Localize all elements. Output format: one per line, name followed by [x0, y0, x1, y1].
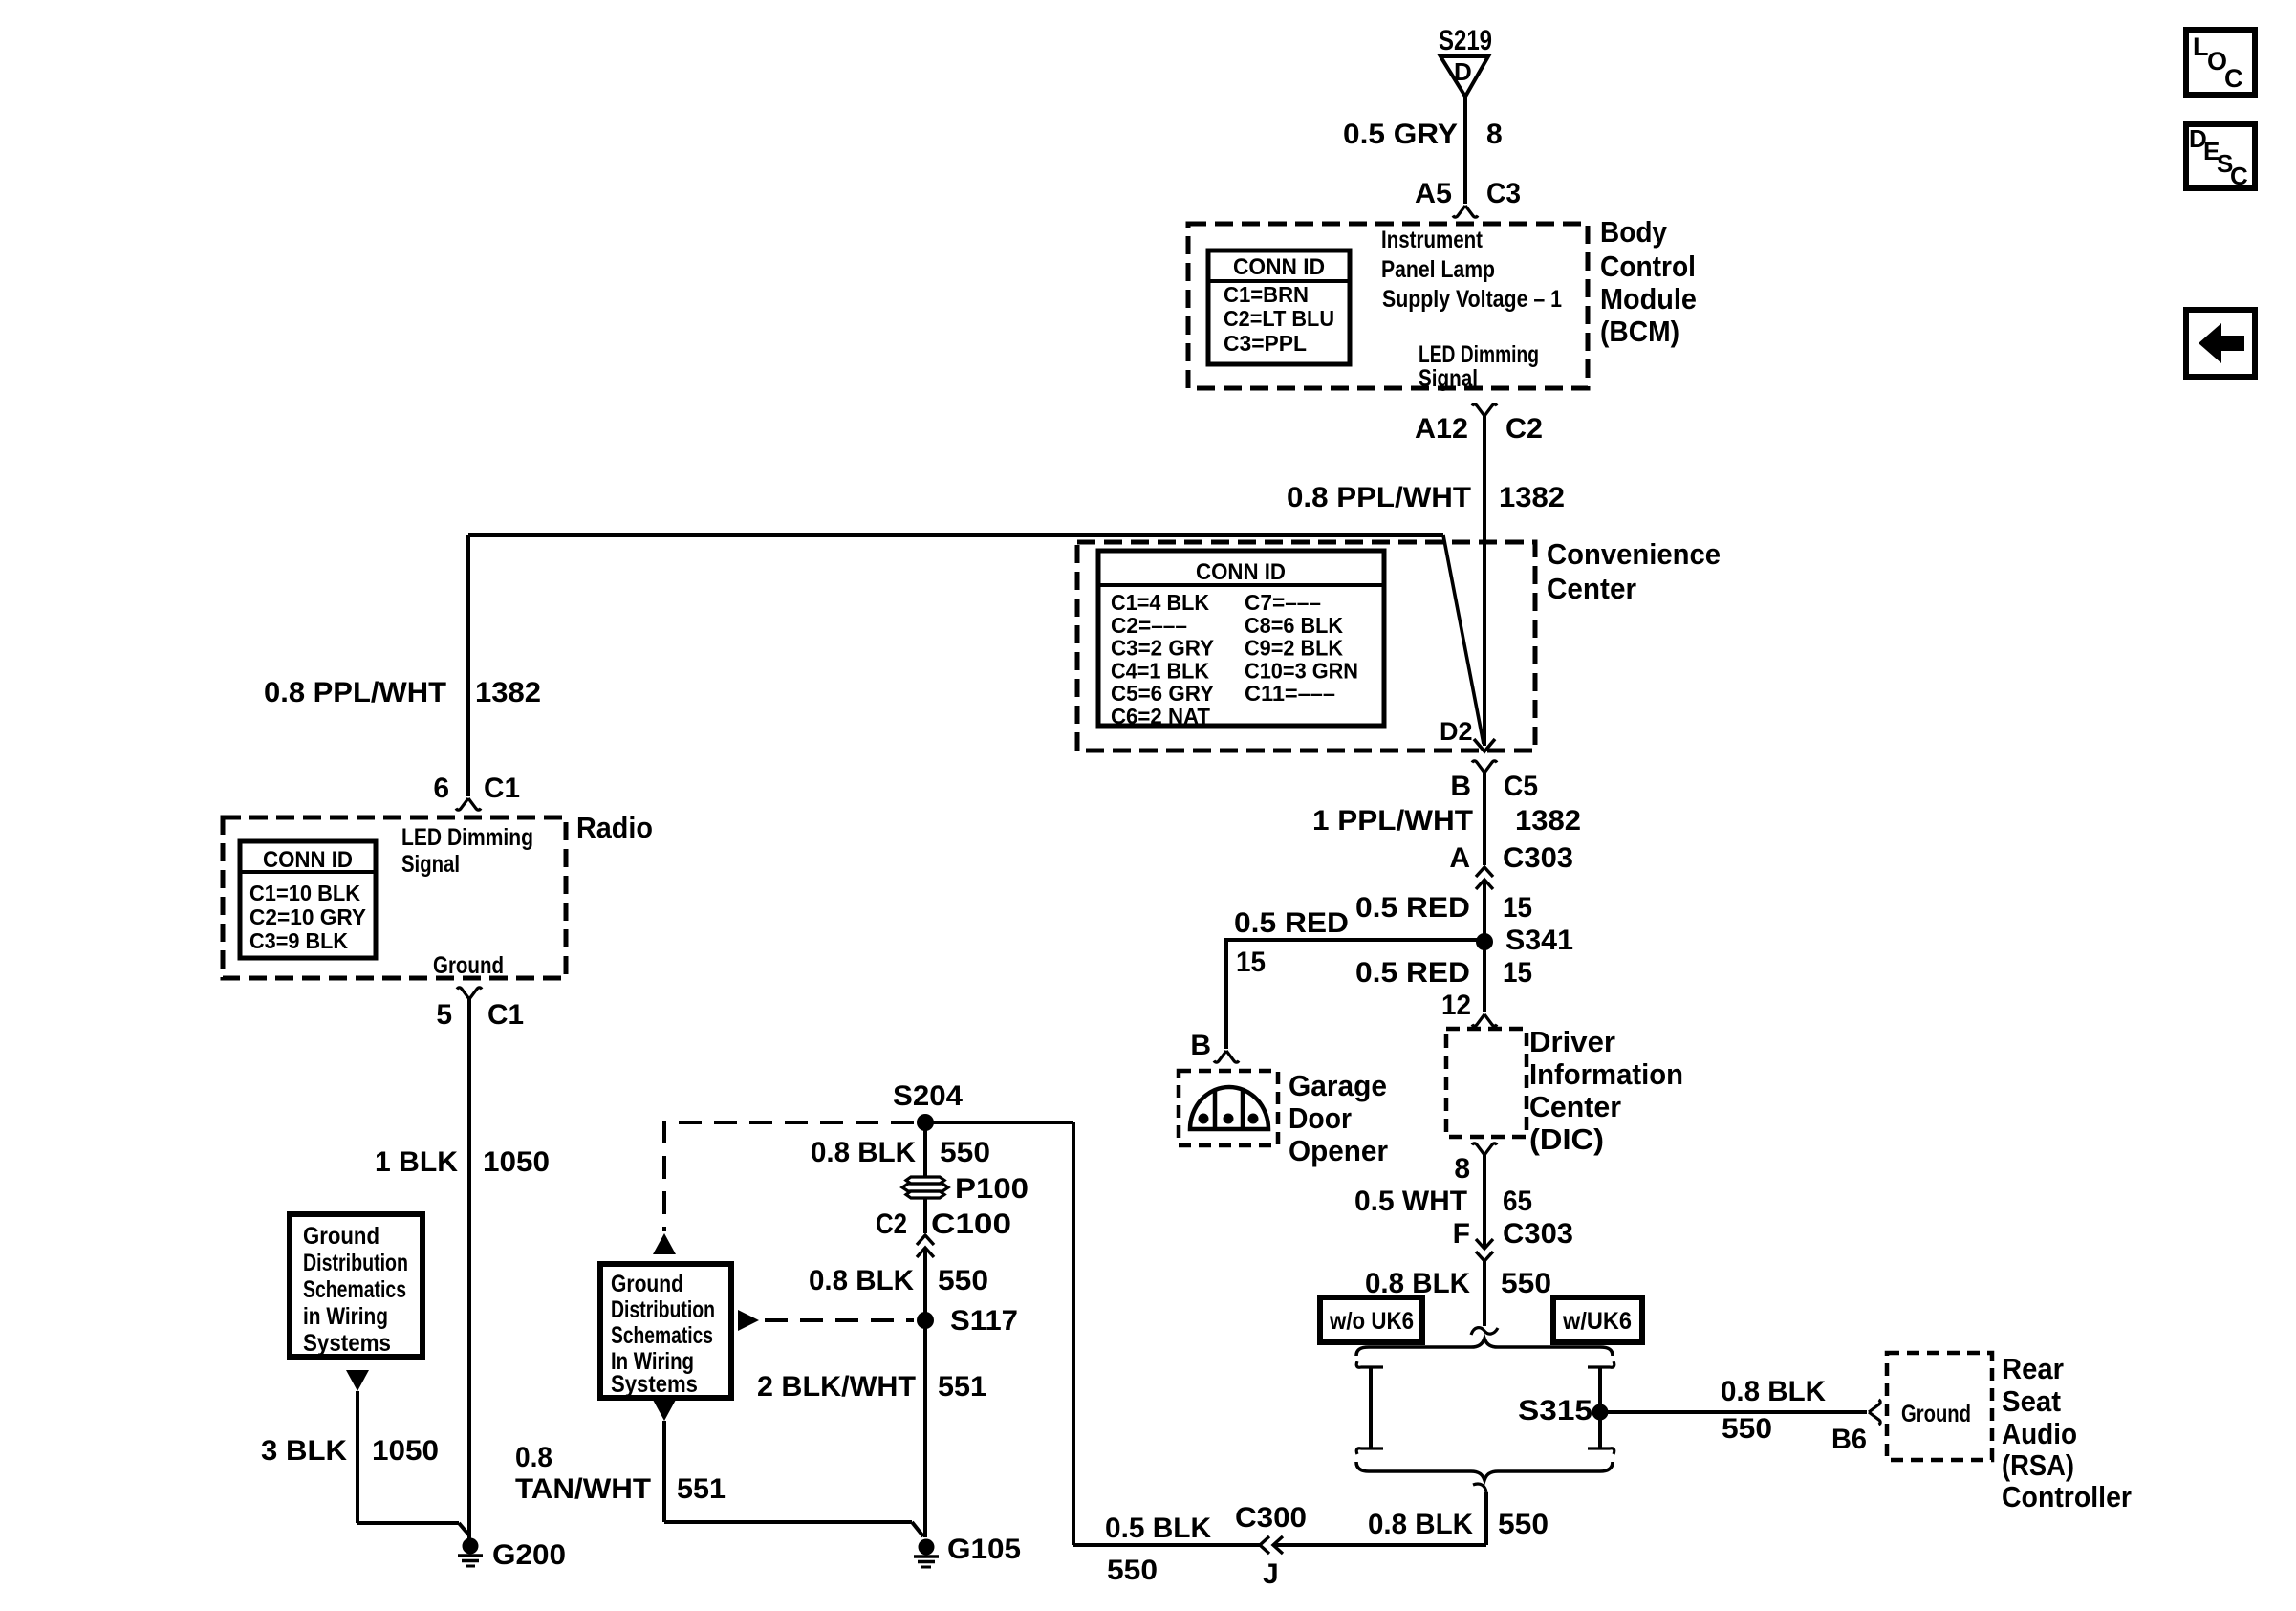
- svg-text:(RSA): (RSA): [2002, 1448, 2074, 1482]
- svg-text:S341: S341: [1505, 925, 1573, 956]
- svg-text:0.8: 0.8: [515, 1442, 552, 1473]
- svg-text:C2=–––: C2=–––: [1111, 613, 1187, 638]
- svg-text:0.8 PPL/WHT: 0.8 PPL/WHT: [264, 677, 446, 708]
- svg-text:65: 65: [1503, 1186, 1532, 1217]
- svg-text:0.5 GRY: 0.5 GRY: [1343, 119, 1458, 150]
- svg-text:Opener: Opener: [1289, 1134, 1388, 1167]
- svg-text:1382: 1382: [1499, 482, 1565, 513]
- svg-text:15: 15: [1503, 957, 1532, 989]
- svg-text:C5: C5: [1504, 771, 1538, 802]
- svg-text:Distribution: Distribution: [303, 1250, 408, 1276]
- svg-text:C4=1 BLK: C4=1 BLK: [1111, 658, 1209, 683]
- svg-text:1 BLK: 1 BLK: [375, 1146, 458, 1178]
- svg-text:2 BLK/WHT: 2 BLK/WHT: [757, 1371, 916, 1403]
- svg-text:Rear: Rear: [2002, 1352, 2064, 1385]
- svg-text:TAN/WHT: TAN/WHT: [515, 1473, 651, 1505]
- svg-text:1382: 1382: [1515, 805, 1581, 837]
- svg-text:0.8 PPL/WHT: 0.8 PPL/WHT: [1287, 482, 1471, 513]
- svg-text:P100: P100: [955, 1173, 1029, 1205]
- svg-text:Instrument: Instrument: [1381, 227, 1484, 253]
- svg-text:15: 15: [1503, 892, 1532, 924]
- svg-text:G105: G105: [947, 1534, 1021, 1565]
- svg-text:5: 5: [436, 999, 452, 1031]
- svg-text:Signal: Signal: [401, 851, 460, 878]
- svg-text:CONN ID: CONN ID: [1233, 254, 1325, 280]
- svg-text:S204: S204: [893, 1080, 963, 1112]
- svg-text:8: 8: [1454, 1153, 1470, 1185]
- svg-text:S315: S315: [1518, 1395, 1592, 1426]
- svg-text:S219: S219: [1439, 25, 1492, 56]
- svg-text:Distribution: Distribution: [611, 1296, 715, 1323]
- svg-text:12: 12: [1441, 990, 1471, 1021]
- svg-text:C7=–––: C7=–––: [1245, 590, 1321, 615]
- svg-text:0.5 RED: 0.5 RED: [1355, 892, 1470, 924]
- svg-text:C300: C300: [1235, 1502, 1307, 1534]
- svg-text:Body: Body: [1600, 215, 1668, 249]
- svg-text:C1=4 BLK: C1=4 BLK: [1111, 590, 1209, 615]
- svg-text:Control: Control: [1600, 250, 1696, 283]
- svg-text:A12: A12: [1415, 413, 1468, 445]
- svg-text:1 PPL/WHT: 1 PPL/WHT: [1312, 805, 1473, 837]
- svg-text:w/UK6: w/UK6: [1562, 1308, 1632, 1335]
- svg-text:C1=BRN: C1=BRN: [1224, 282, 1309, 307]
- svg-text:in Wiring: in Wiring: [303, 1303, 388, 1330]
- svg-text:Module: Module: [1600, 282, 1697, 316]
- svg-text:Ground: Ground: [303, 1223, 379, 1250]
- svg-text:1382: 1382: [475, 677, 541, 708]
- svg-text:D2: D2: [1440, 717, 1473, 746]
- svg-text:CONN ID: CONN ID: [1196, 559, 1286, 585]
- svg-text:C11=–––: C11=–––: [1245, 681, 1335, 706]
- svg-text:Center: Center: [1547, 572, 1636, 605]
- svg-text:Supply Voltage – 1: Supply Voltage – 1: [1382, 286, 1562, 313]
- svg-text:C3=PPL: C3=PPL: [1224, 331, 1307, 356]
- svg-text:C1: C1: [487, 999, 524, 1031]
- svg-text:Ground: Ground: [1901, 1401, 1971, 1427]
- svg-text:Signal: Signal: [1419, 365, 1478, 392]
- svg-text:1050: 1050: [372, 1435, 439, 1467]
- svg-text:Information: Information: [1529, 1057, 1683, 1091]
- svg-text:0.8 BLK: 0.8 BLK: [811, 1137, 916, 1168]
- svg-text:0.5 BLK: 0.5 BLK: [1105, 1513, 1211, 1544]
- svg-text:550: 550: [1722, 1413, 1772, 1445]
- svg-text:Controller: Controller: [2002, 1480, 2132, 1513]
- svg-text:B: B: [1190, 1030, 1211, 1061]
- svg-text:C: C: [2224, 64, 2243, 93]
- svg-text:C2: C2: [1505, 413, 1543, 445]
- svg-text:550: 550: [1501, 1268, 1551, 1299]
- svg-text:C: C: [2230, 162, 2248, 190]
- svg-text:C2=10 GRY: C2=10 GRY: [249, 904, 366, 929]
- svg-text:C100: C100: [931, 1208, 1011, 1240]
- svg-text:C303: C303: [1503, 1218, 1573, 1250]
- svg-text:Driver: Driver: [1529, 1025, 1615, 1058]
- svg-text:S117: S117: [950, 1305, 1018, 1337]
- svg-text:C5=6 GRY: C5=6 GRY: [1111, 681, 1214, 706]
- svg-text:0.5 WHT: 0.5 WHT: [1354, 1186, 1467, 1217]
- svg-text:Schematics: Schematics: [611, 1322, 713, 1349]
- svg-text:C3=2 GRY: C3=2 GRY: [1111, 636, 1214, 661]
- svg-text:0.8 BLK: 0.8 BLK: [1721, 1376, 1826, 1407]
- svg-text:Ground: Ground: [611, 1271, 683, 1297]
- svg-text:0.5 RED: 0.5 RED: [1355, 957, 1470, 989]
- svg-text:C10=3 GRN: C10=3 GRN: [1245, 658, 1358, 683]
- svg-text:550: 550: [1107, 1555, 1158, 1586]
- svg-text:B6: B6: [1831, 1424, 1867, 1455]
- svg-text:Systems: Systems: [611, 1371, 698, 1398]
- svg-text:550: 550: [940, 1137, 990, 1168]
- svg-text:1050: 1050: [483, 1146, 550, 1178]
- svg-text:A5: A5: [1415, 178, 1452, 209]
- svg-text:C1=10 BLK: C1=10 BLK: [249, 881, 360, 905]
- svg-text:C6=2 NAT: C6=2 NAT: [1111, 704, 1210, 729]
- svg-text:C1: C1: [484, 773, 520, 804]
- svg-text:C2=LT BLU: C2=LT BLU: [1224, 306, 1334, 331]
- svg-text:Center: Center: [1529, 1090, 1621, 1123]
- svg-text:0.5 RED: 0.5 RED: [1234, 907, 1349, 939]
- svg-text:Door: Door: [1289, 1101, 1352, 1135]
- svg-text:Systems: Systems: [303, 1330, 391, 1357]
- svg-text:3 BLK: 3 BLK: [261, 1435, 347, 1467]
- svg-text:Radio: Radio: [576, 811, 653, 844]
- svg-text:Ground: Ground: [433, 952, 504, 979]
- svg-text:551: 551: [938, 1371, 986, 1403]
- svg-text:C3: C3: [1486, 178, 1521, 209]
- svg-text:F: F: [1453, 1218, 1470, 1250]
- svg-text:Seat: Seat: [2002, 1384, 2061, 1418]
- svg-text:LED Dimming: LED Dimming: [401, 824, 533, 851]
- svg-text:C303: C303: [1503, 842, 1573, 874]
- svg-text:B: B: [1450, 771, 1471, 802]
- svg-text:D: D: [1454, 57, 1472, 86]
- svg-text:15: 15: [1236, 947, 1266, 978]
- svg-text:0.8 BLK: 0.8 BLK: [809, 1265, 914, 1296]
- svg-text:6: 6: [433, 773, 449, 804]
- svg-text:A: A: [1449, 842, 1470, 874]
- svg-text:C2: C2: [876, 1208, 907, 1240]
- svg-text:Convenience: Convenience: [1547, 537, 1721, 571]
- svg-text:(DIC): (DIC): [1529, 1122, 1604, 1156]
- svg-text:w/o UK6: w/o UK6: [1329, 1308, 1414, 1335]
- svg-text:(BCM): (BCM): [1600, 315, 1679, 348]
- svg-text:550: 550: [938, 1265, 988, 1296]
- svg-text:Audio: Audio: [2002, 1417, 2077, 1450]
- svg-text:C3=9 BLK: C3=9 BLK: [249, 928, 348, 953]
- svg-text:Schematics: Schematics: [303, 1276, 406, 1303]
- svg-text:CONN ID: CONN ID: [263, 847, 353, 873]
- svg-text:0.8 BLK: 0.8 BLK: [1368, 1509, 1473, 1540]
- svg-text:C9=2 BLK: C9=2 BLK: [1245, 636, 1343, 661]
- svg-text:551: 551: [677, 1473, 726, 1505]
- svg-text:G200: G200: [492, 1539, 566, 1571]
- svg-text:J: J: [1263, 1558, 1279, 1590]
- svg-text:Panel Lamp: Panel Lamp: [1381, 256, 1495, 283]
- svg-text:550: 550: [1498, 1509, 1549, 1540]
- svg-text:8: 8: [1486, 119, 1503, 150]
- svg-text:C8=6 BLK: C8=6 BLK: [1245, 613, 1343, 638]
- svg-text:LED Dimming: LED Dimming: [1419, 341, 1539, 368]
- svg-text:Garage: Garage: [1289, 1069, 1387, 1102]
